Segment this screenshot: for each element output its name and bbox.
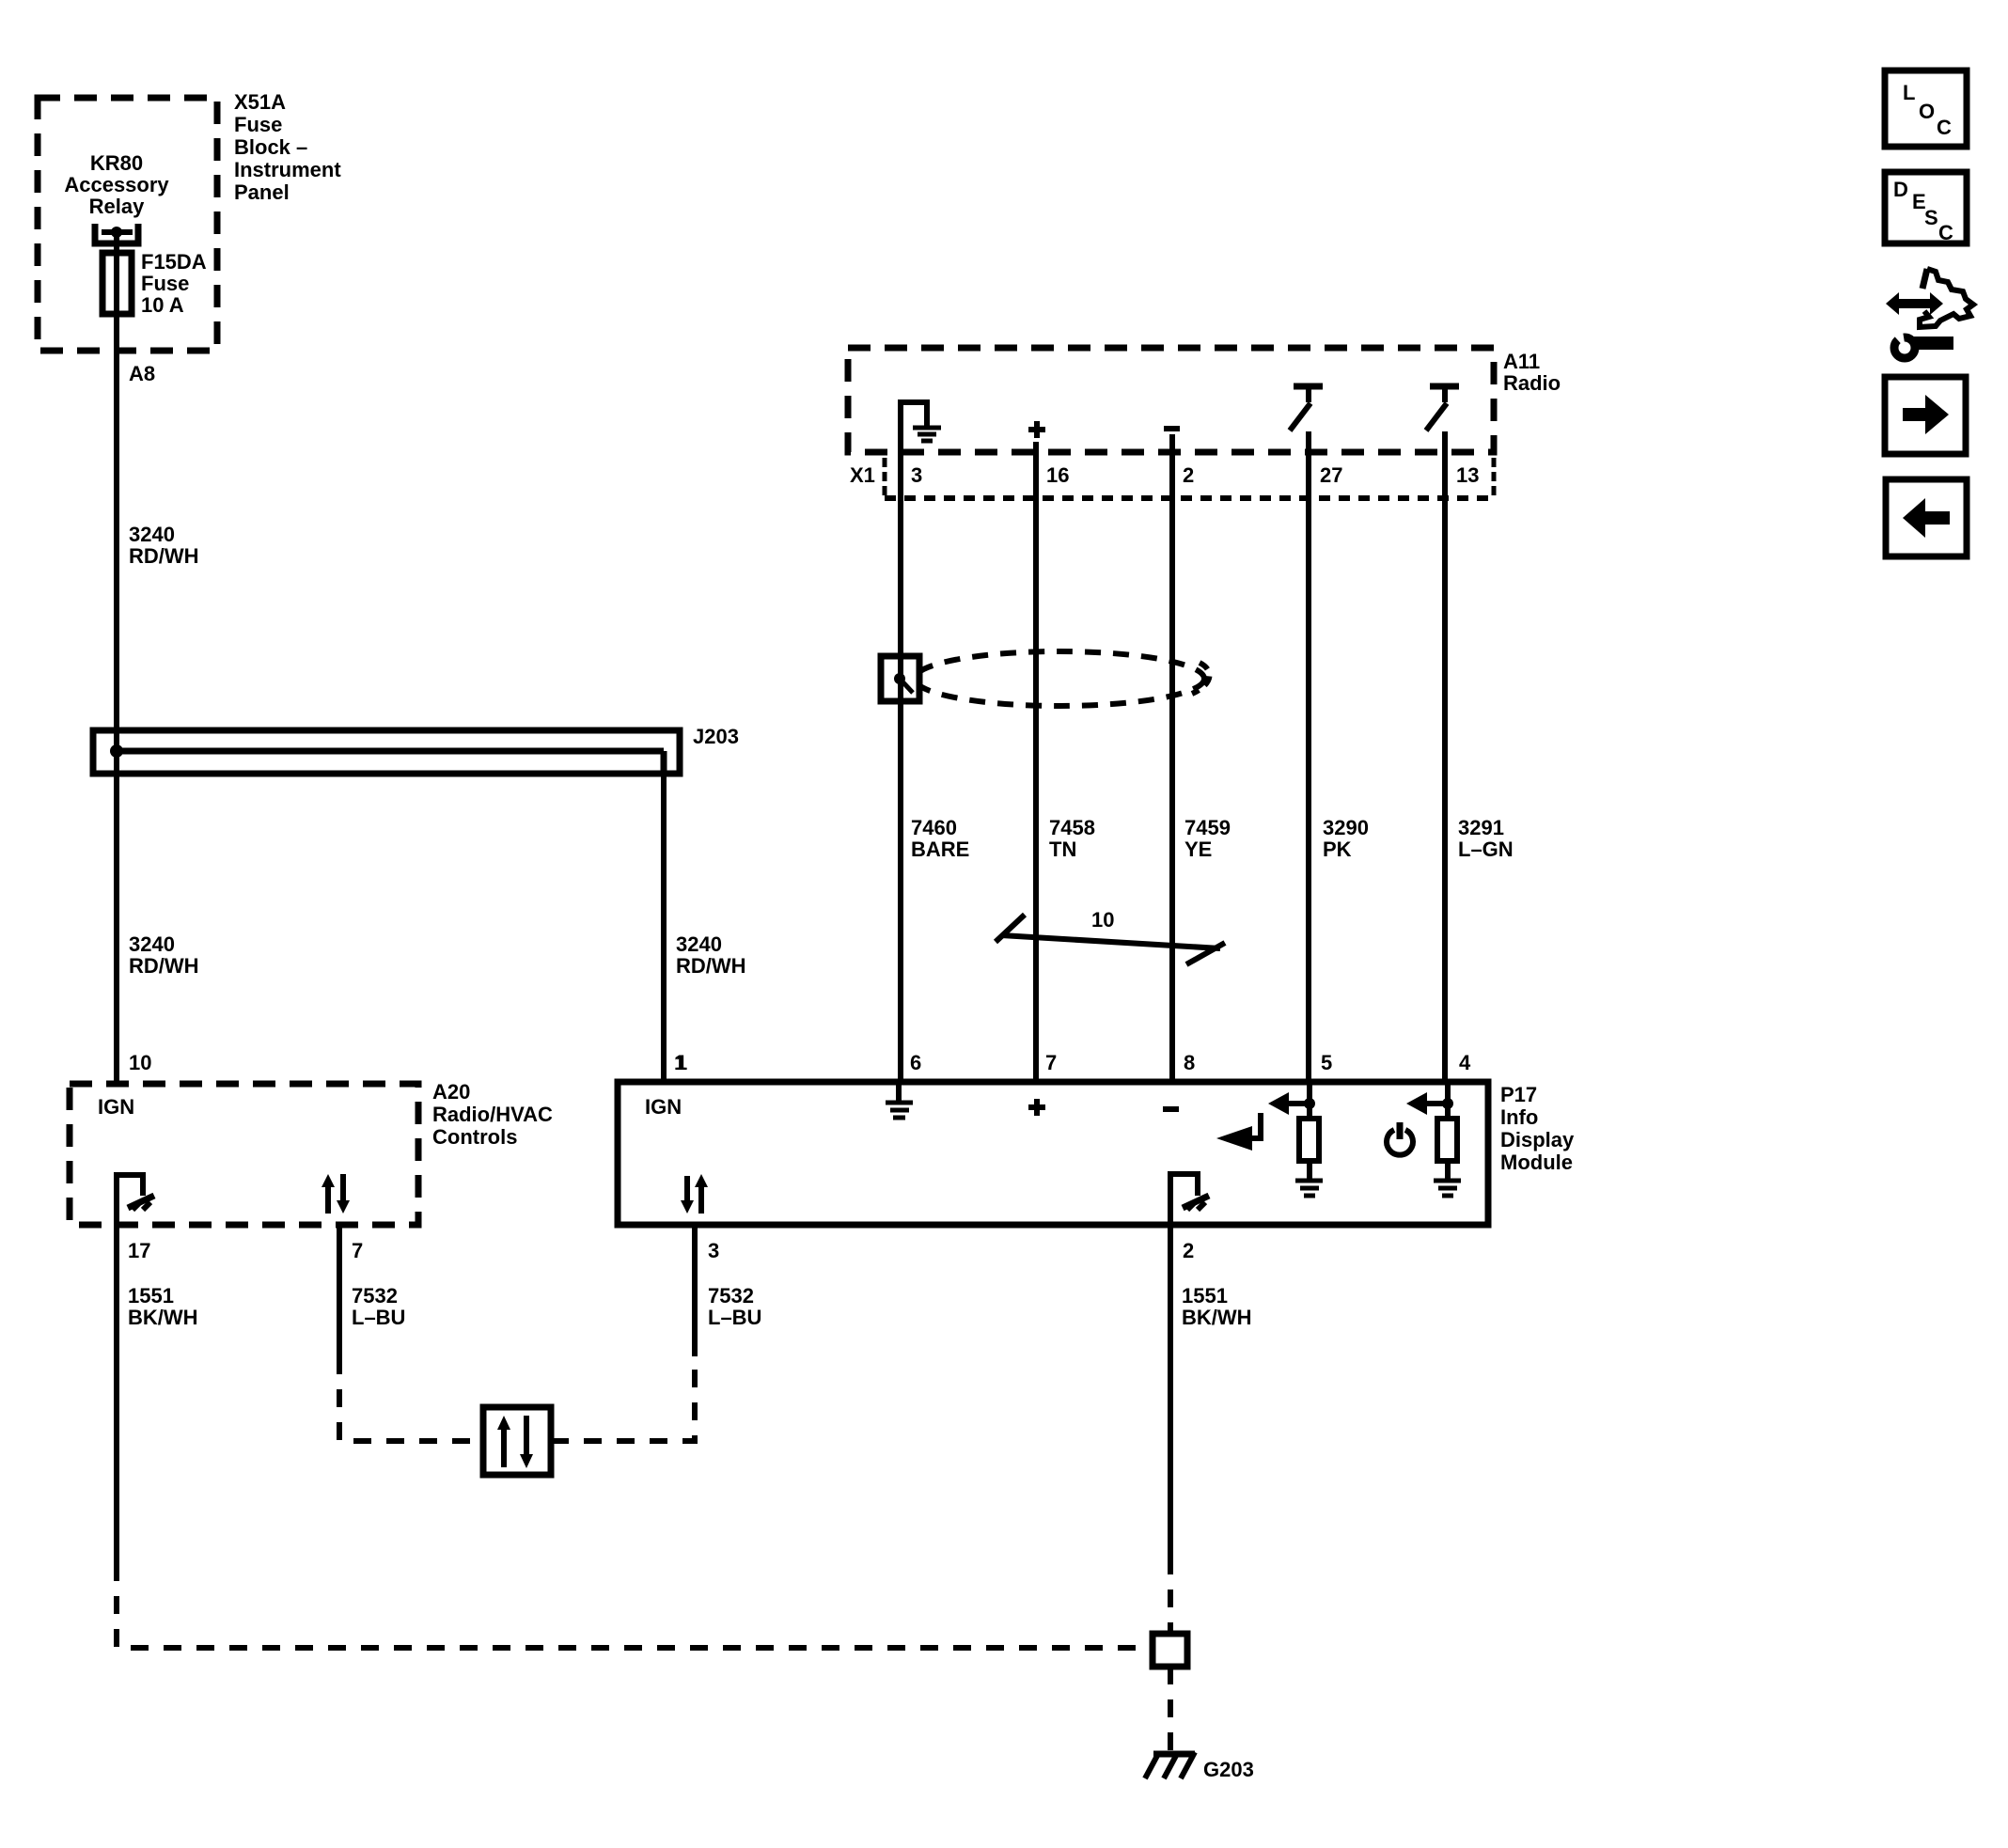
svg-text:P17: P17 (1500, 1083, 1537, 1106)
label J203 (693, 725, 739, 748)
radio plus symbol at pin 16 (1028, 421, 1045, 438)
svg-text:BARE: BARE (911, 838, 969, 861)
svg-text:3240: 3240 (129, 932, 175, 956)
P17 plus symbol at pin 7 (1028, 1099, 1045, 1116)
label P17 Info Display Module (1500, 1083, 1575, 1174)
wire 3290 PK (1306, 431, 1311, 1082)
P17 internal chassis ground at pin 2 (1170, 1174, 1209, 1225)
wire 1551 BK/WH from P17 pin 2 to G203 (1168, 1225, 1173, 1557)
svg-text:13: 13 (1456, 463, 1479, 487)
wire from relay through fuse (114, 232, 119, 1084)
P17 display arrow symbol (1216, 1113, 1261, 1151)
svg-text:1551: 1551 (1182, 1284, 1228, 1308)
svg-text:F15DA: F15DA (141, 250, 207, 274)
svg-text:RD/WH: RD/WH (129, 544, 199, 568)
svg-text:7458: 7458 (1049, 816, 1095, 839)
fuse F15DA (102, 253, 132, 314)
svg-text:C: C (1938, 221, 1953, 244)
icon back arrow box (1886, 479, 1967, 556)
svg-text:17: 17 (128, 1239, 150, 1262)
svg-text:Block –: Block – (234, 135, 307, 159)
svg-text:3240: 3240 (129, 523, 175, 546)
label X1 (850, 463, 875, 487)
P17 pin 5 branch: arrow, resistor, ground (1268, 1082, 1323, 1196)
wire label 1551 BK/WH right (1182, 1284, 1252, 1329)
wire label 7458 TN (1049, 816, 1095, 861)
svg-text:G203: G203 (1203, 1758, 1254, 1781)
radio pin numbers (911, 463, 1479, 487)
svg-text:A20: A20 (432, 1080, 470, 1104)
wire 1551 BK/WH from A20 pin 17 to G203 (114, 1225, 119, 1563)
pin 17 label (128, 1239, 150, 1262)
wire 3291 L-GN (1442, 431, 1448, 1082)
wire 7459 YE (1169, 434, 1175, 1082)
svg-text:O: O (1919, 100, 1935, 123)
radio A11 dashed box (848, 348, 1494, 452)
svg-text:RD/WH: RD/WH (676, 954, 746, 978)
svg-text:3: 3 (708, 1239, 719, 1262)
svg-text:Display: Display (1500, 1128, 1575, 1151)
label KR80 Accessory Relay (64, 151, 169, 218)
svg-text:Accessory: Accessory (64, 173, 169, 196)
svg-text:PK: PK (1323, 838, 1352, 861)
wire label 3240 RD/WH right lower (676, 932, 746, 978)
label X51A Fuse Block - Instrument Panel (234, 90, 341, 204)
wire label 7460 BARE (911, 816, 969, 861)
svg-text:D: D (1893, 178, 1908, 201)
shield drain square on BARE wire (881, 656, 919, 701)
svg-text:IGN: IGN (98, 1095, 134, 1119)
svg-text:7532: 7532 (708, 1284, 754, 1308)
wire label 3240 RD/WH upper (129, 523, 199, 568)
label IGN in P17 (645, 1095, 682, 1119)
svg-text:7: 7 (352, 1239, 363, 1262)
radio/hvac controls A20 dashed box (70, 1084, 418, 1225)
svg-text:X51A: X51A (234, 90, 286, 114)
svg-text:S: S (1924, 206, 1938, 229)
svg-text:5: 5 (1321, 1051, 1332, 1074)
wire 7458 TN (1033, 442, 1039, 1082)
ground G203 (1145, 1752, 1195, 1778)
bundle slash 10 (996, 915, 1225, 964)
svg-text:10: 10 (1091, 908, 1114, 932)
icon LOC box (1885, 70, 1967, 147)
relay KR80 contact symbol (95, 224, 138, 243)
P17 down/up arrows at pin 3 (681, 1174, 708, 1214)
P17 pin numbers top (676, 1051, 1471, 1074)
wire label 7532 L-BU right (708, 1284, 761, 1329)
splice pack J203 (93, 730, 680, 774)
svg-text:6: 6 (910, 1051, 921, 1074)
fuse block X51A dashed box (38, 98, 217, 351)
svg-text:L–GN: L–GN (1458, 838, 1514, 861)
radio switch symbol at pin 13 (1426, 386, 1459, 431)
icon forward arrow box (1885, 377, 1966, 454)
wire 7532 L-BU from A20 pin 7 (337, 1225, 342, 1356)
svg-text:A8: A8 (129, 362, 155, 385)
svg-text:Fuse: Fuse (141, 272, 189, 295)
P17 power symbol (1387, 1122, 1413, 1155)
node A8 (129, 362, 155, 385)
pin 3 label (708, 1239, 719, 1262)
wire 7532 L-BU to P17 pin 3 (551, 1356, 695, 1441)
svg-text:1: 1 (676, 1051, 687, 1074)
svg-text:27: 27 (1320, 463, 1342, 487)
pin 10 label (129, 1051, 151, 1074)
P17 minus symbol at pin 8 (1163, 1106, 1179, 1112)
svg-text:Fuse: Fuse (234, 113, 282, 136)
svg-text:Module: Module (1500, 1151, 1573, 1174)
pin 7 label (352, 1239, 363, 1262)
svg-text:RD/WH: RD/WH (129, 954, 199, 978)
inline connector box with arrows (483, 1407, 551, 1475)
P17 pin 4 branch: arrow, resistor, ground (1406, 1082, 1461, 1196)
P17 internal ground at pin 6 (886, 1082, 913, 1118)
dashed wire below junction (1168, 1667, 1173, 1750)
radio internal ground at pin 3 (901, 402, 941, 498)
junction square at G203 (1153, 1634, 1187, 1667)
svg-text:KR80: KR80 (90, 151, 143, 175)
radio minus symbol at pin 2 (1164, 426, 1180, 431)
info display module P17 box (618, 1082, 1488, 1225)
svg-text:L: L (1903, 81, 1915, 104)
svg-text:2: 2 (1183, 463, 1194, 487)
wire label 1551 BK/WH left (128, 1284, 198, 1329)
svg-text:Radio/HVAC: Radio/HVAC (432, 1103, 553, 1126)
label F15DA Fuse 10 A (141, 250, 207, 317)
svg-text:J203: J203 (693, 725, 739, 748)
pin 2 label (1183, 1239, 1194, 1262)
svg-text:Relay: Relay (89, 195, 145, 218)
wire label 7459 YE (1184, 816, 1231, 861)
svg-text:3: 3 (911, 463, 922, 487)
svg-text:10: 10 (129, 1051, 151, 1074)
svg-text:YE: YE (1184, 838, 1212, 861)
svg-text:X1: X1 (850, 463, 875, 487)
svg-text:7460: 7460 (911, 816, 957, 839)
svg-text:2: 2 (1183, 1239, 1194, 1262)
wire label 3291 L-GN (1458, 816, 1514, 861)
svg-text:Info: Info (1500, 1105, 1538, 1129)
svg-text:3291: 3291 (1458, 816, 1504, 839)
wire 7460 BARE (898, 498, 903, 1082)
twisted/shielded cable ellipse (915, 651, 1204, 706)
svg-text:10 A: 10 A (141, 293, 184, 317)
svg-text:Panel: Panel (234, 180, 290, 204)
svg-text:L–BU: L–BU (708, 1306, 761, 1329)
radio switch symbol at pin 27 (1290, 386, 1323, 431)
svg-text:A11: A11 (1503, 350, 1540, 373)
wire label 3290 PK (1323, 816, 1369, 861)
svg-text:C: C (1937, 116, 1952, 139)
wire J203 to P17 pin 1 (661, 774, 667, 1082)
svg-text:7: 7 (1045, 1051, 1057, 1074)
svg-text:BK/WH: BK/WH (1182, 1306, 1252, 1329)
svg-text:TN: TN (1049, 838, 1076, 861)
svg-text:8: 8 (1184, 1051, 1195, 1074)
A20 internal chassis ground at pin 17 (117, 1175, 154, 1225)
svg-text:Radio: Radio (1503, 371, 1561, 395)
svg-text:BK/WH: BK/WH (128, 1306, 198, 1329)
svg-text:Instrument: Instrument (234, 158, 341, 181)
icon jump-to-wrench (1886, 269, 1973, 358)
svg-text:L–BU: L–BU (352, 1306, 405, 1329)
svg-text:Controls: Controls (432, 1125, 517, 1149)
svg-text:7459: 7459 (1184, 816, 1231, 839)
A20 up/down arrows at pin 7 (322, 1174, 350, 1214)
svg-text:16: 16 (1046, 463, 1069, 487)
wire label 3240 RD/WH left lower (129, 932, 199, 978)
radio connector band X1 (885, 458, 1494, 498)
label IGN in A20 (98, 1095, 134, 1119)
label A11 Radio (1503, 350, 1561, 395)
svg-text:7532: 7532 (352, 1284, 398, 1308)
svg-text:1551: 1551 (128, 1284, 174, 1308)
icon DESC box (1885, 172, 1967, 244)
svg-text:4: 4 (1459, 1051, 1471, 1074)
svg-text:3290: 3290 (1323, 816, 1369, 839)
pin 1 label (674, 1051, 685, 1074)
label A20 Radio/HVAC Controls (432, 1080, 553, 1149)
svg-text:3240: 3240 (676, 932, 722, 956)
wire label 7532 L-BU left (352, 1284, 405, 1329)
svg-text:IGN: IGN (645, 1095, 682, 1119)
